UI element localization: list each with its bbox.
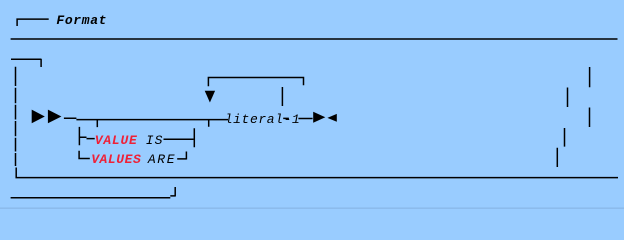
svg-text:IS: IS — [146, 133, 164, 148]
svg-text:VALUE: VALUE — [95, 133, 138, 148]
svg-text:literal-1: literal-1 — [225, 112, 300, 127]
svg-text:Format: Format — [56, 13, 107, 28]
svg-text:VALUES: VALUES — [91, 152, 141, 167]
svg-text:ARE: ARE — [147, 152, 176, 167]
